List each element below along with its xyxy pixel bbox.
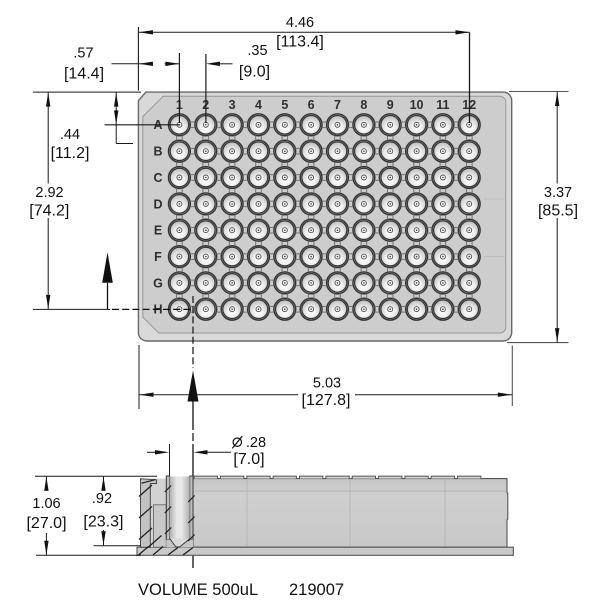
connector E6-E7 bbox=[322, 227, 327, 233]
connector C5-C6 bbox=[295, 175, 300, 181]
connector B5-C5 bbox=[282, 162, 288, 167]
svg-text:[127.8]: [127.8] bbox=[302, 392, 351, 409]
extension line row H bbox=[33, 308, 110, 310]
well A9 bbox=[379, 114, 401, 136]
well B12 bbox=[458, 140, 480, 162]
svg-text:3: 3 bbox=[229, 98, 236, 112]
connector C7-D7 bbox=[335, 188, 341, 193]
well E3 bbox=[221, 219, 243, 241]
hatch stroke 6 bbox=[165, 486, 171, 493]
well F1 bbox=[169, 246, 191, 268]
connector C10-C11 bbox=[427, 175, 432, 181]
connector D3-E3 bbox=[229, 215, 235, 220]
well E12 bbox=[458, 219, 480, 241]
connector D1-E1 bbox=[177, 215, 183, 220]
well rim tab 9 bbox=[405, 476, 428, 479]
connector C2-C3 bbox=[216, 175, 221, 181]
connector B1-C1 bbox=[177, 162, 183, 167]
section arrow left head bbox=[102, 252, 113, 282]
connector B2-C2 bbox=[203, 162, 209, 167]
connector H11-H12 bbox=[454, 306, 459, 312]
dimension .57 left arrow bbox=[139, 62, 153, 66]
svg-text:[74.2]: [74.2] bbox=[29, 203, 69, 220]
svg-text:C: C bbox=[153, 171, 162, 185]
well B11 bbox=[432, 140, 454, 162]
well F6 bbox=[300, 246, 322, 268]
well H3 bbox=[221, 298, 243, 320]
connector F3-F4 bbox=[243, 254, 248, 260]
connector G1-G2 bbox=[190, 280, 195, 286]
connector C8-D8 bbox=[361, 188, 367, 193]
well D10 bbox=[406, 193, 428, 215]
well G4 bbox=[248, 272, 270, 294]
well D9 bbox=[379, 193, 401, 215]
well E8 bbox=[353, 219, 375, 241]
well E5 bbox=[274, 219, 296, 241]
well D2 bbox=[195, 193, 217, 215]
hatch stroke 1 bbox=[139, 485, 152, 497]
connector A4-B4 bbox=[256, 135, 262, 140]
connector F9-G9 bbox=[387, 267, 393, 272]
well A2 bbox=[195, 114, 217, 136]
dimension 4.46 line bbox=[138, 31, 469, 33]
connector F3-G3 bbox=[229, 267, 235, 272]
svg-text:[14.4]: [14.4] bbox=[64, 66, 104, 83]
connector A11-A12 bbox=[454, 122, 459, 128]
connector C9-C10 bbox=[401, 175, 406, 181]
connector D3-D4 bbox=[243, 201, 248, 207]
connector E12-F12 bbox=[466, 241, 472, 246]
well A10 bbox=[406, 114, 428, 136]
connector B7-B8 bbox=[348, 148, 353, 154]
well C10 bbox=[406, 167, 428, 189]
svg-text:.28: .28 bbox=[246, 435, 266, 451]
well C9 bbox=[379, 167, 401, 189]
connector F10-G10 bbox=[414, 267, 420, 272]
connector A9-B9 bbox=[387, 135, 393, 140]
hatch stroke 10 bbox=[188, 517, 194, 524]
well H10 bbox=[406, 298, 428, 320]
well A3 bbox=[221, 114, 243, 136]
connector F7-G7 bbox=[335, 267, 341, 272]
svg-text:[27.0]: [27.0] bbox=[26, 515, 66, 532]
svg-text:3.37: 3.37 bbox=[544, 185, 572, 201]
svg-text:VOLUME 500uL: VOLUME 500uL bbox=[138, 581, 258, 599]
dimension .92 line lower bbox=[103, 530, 105, 546]
connector A12-B12 bbox=[466, 135, 472, 140]
connector E5-F5 bbox=[282, 241, 288, 246]
plate top view outline bbox=[138, 92, 511, 341]
dimension 1.06 line lower bbox=[45, 533, 47, 555]
connector E2-F2 bbox=[203, 241, 209, 246]
well G3 bbox=[221, 272, 243, 294]
extension line bottom left bbox=[138, 345, 140, 409]
svg-text:G: G bbox=[153, 276, 163, 290]
connector G10-H10 bbox=[414, 294, 420, 299]
connector B10-B11 bbox=[427, 148, 432, 154]
svg-text:4.46: 4.46 bbox=[286, 15, 314, 31]
connector G3-H3 bbox=[229, 294, 235, 299]
connector F2-G2 bbox=[203, 267, 209, 272]
svg-text:9: 9 bbox=[387, 98, 394, 112]
svg-text:4: 4 bbox=[255, 98, 262, 112]
connector B1-B2 bbox=[190, 148, 195, 154]
mold line right margin 2 bbox=[484, 256, 506, 258]
connector F8-F9 bbox=[375, 254, 380, 260]
dimension 5.03 right arrow bbox=[498, 393, 512, 397]
svg-text:[7.0]: [7.0] bbox=[233, 451, 264, 468]
centerline well column 2 bbox=[205, 54, 207, 123]
connector D10-E10 bbox=[414, 215, 420, 220]
well B8 bbox=[353, 140, 375, 162]
connector G3-G4 bbox=[243, 280, 248, 286]
well E6 bbox=[300, 219, 322, 241]
dimension 2.92 down arrow bbox=[46, 295, 50, 309]
well rim tab 2 bbox=[220, 476, 243, 479]
connector A2-B2 bbox=[203, 135, 209, 140]
svg-text:E: E bbox=[154, 224, 162, 238]
connector D6-E6 bbox=[308, 215, 314, 220]
connector A5-B5 bbox=[282, 135, 288, 140]
hatch stroke 4 bbox=[142, 480, 156, 484]
connector E7-E8 bbox=[348, 227, 353, 233]
extension line plate top edge left bbox=[33, 91, 141, 93]
well rim tab 4 bbox=[273, 476, 296, 479]
section arrow left shaft bbox=[107, 283, 109, 309]
dimension .92 down arrow bbox=[101, 531, 105, 545]
svg-text:1.06: 1.06 bbox=[32, 496, 60, 512]
connector C7-C8 bbox=[348, 175, 353, 181]
connector G4-G5 bbox=[269, 280, 274, 286]
extension line well wall left bbox=[169, 444, 171, 476]
hatch stroke 9 bbox=[188, 496, 194, 503]
extension line plate bottom right bbox=[507, 342, 569, 344]
connector D1-D2 bbox=[190, 201, 195, 207]
connector F12-G12 bbox=[466, 267, 472, 272]
connector G8-H8 bbox=[361, 294, 367, 299]
well F3 bbox=[221, 246, 243, 268]
diameter symbol bbox=[232, 436, 242, 448]
well F11 bbox=[432, 246, 454, 268]
well C3 bbox=[221, 167, 243, 189]
svg-text:.44: .44 bbox=[60, 127, 80, 143]
well cavity bbox=[170, 477, 190, 539]
dimension 3.37 line upper bbox=[556, 92, 558, 184]
svg-text:219007: 219007 bbox=[289, 581, 344, 599]
well tube cut right wall bbox=[190, 476, 193, 540]
well A6 bbox=[300, 114, 322, 136]
connector C11-D11 bbox=[440, 188, 446, 193]
well E2 bbox=[195, 219, 217, 241]
section cut centerline dashed upper bbox=[192, 296, 194, 368]
connector E9-F9 bbox=[387, 241, 393, 246]
dimension .44 line bbox=[115, 92, 117, 143]
well tube cut left wall bbox=[166, 476, 169, 540]
connector G9-G10 bbox=[401, 280, 406, 286]
well C6 bbox=[300, 167, 322, 189]
section arrow main head bbox=[188, 371, 199, 402]
well G6 bbox=[300, 272, 322, 294]
connector E4-F4 bbox=[256, 241, 262, 246]
dimension 1.06 down arrow bbox=[44, 541, 48, 555]
well B3 bbox=[221, 140, 243, 162]
connector A10-B10 bbox=[414, 135, 420, 140]
connector F6-G6 bbox=[308, 267, 314, 272]
connector B10-C10 bbox=[414, 162, 420, 167]
connector G5-H5 bbox=[282, 294, 288, 299]
hatch stroke 5 bbox=[149, 536, 162, 548]
connector H6-H7 bbox=[322, 306, 327, 312]
connector D9-D10 bbox=[401, 201, 406, 207]
connector H8-H9 bbox=[375, 306, 380, 312]
connector A7-B7 bbox=[335, 135, 341, 140]
dimension 4.46 left arrow bbox=[139, 30, 153, 34]
svg-text:.57: .57 bbox=[73, 46, 93, 62]
well C12 bbox=[458, 167, 480, 189]
well H7 bbox=[327, 298, 349, 320]
well C1 bbox=[169, 167, 191, 189]
well A12 bbox=[458, 114, 480, 136]
dimension .44 down arrow bbox=[114, 110, 118, 124]
dimension dia .28 tail bbox=[207, 451, 232, 453]
connector E11-F11 bbox=[440, 241, 446, 246]
connector D5-E5 bbox=[282, 215, 288, 220]
connector F2-F3 bbox=[216, 254, 221, 260]
connector G9-H9 bbox=[387, 294, 393, 299]
dimension 5.03 line left bbox=[139, 394, 298, 396]
svg-text:6: 6 bbox=[308, 98, 315, 112]
plate raised deck bbox=[143, 96, 506, 333]
connector D7-E7 bbox=[335, 215, 341, 220]
connector A10-A11 bbox=[427, 122, 432, 128]
connector B4-C4 bbox=[256, 162, 262, 167]
connector E7-F7 bbox=[335, 241, 341, 246]
cut inner rib bbox=[154, 505, 167, 547]
svg-text:.92: .92 bbox=[92, 491, 112, 507]
well G2 bbox=[195, 272, 217, 294]
connector C6-D6 bbox=[308, 188, 314, 193]
well F9 bbox=[379, 246, 401, 268]
well rim tab 7 bbox=[352, 476, 375, 479]
well rim tab 3 bbox=[247, 476, 270, 479]
connector A8-A9 bbox=[375, 122, 380, 128]
hatch stroke 14 bbox=[168, 548, 178, 556]
mold line right margin 1 bbox=[484, 198, 506, 200]
svg-text:[9.0]: [9.0] bbox=[239, 64, 270, 81]
well B10 bbox=[406, 140, 428, 162]
connector C8-C9 bbox=[375, 175, 380, 181]
dimension .35 tail bbox=[219, 63, 233, 65]
well A1 bbox=[169, 114, 191, 136]
connector B3-C3 bbox=[229, 162, 235, 167]
well D11 bbox=[432, 193, 454, 215]
well B7 bbox=[327, 140, 349, 162]
connector B8-B9 bbox=[375, 148, 380, 154]
connector B6-C6 bbox=[308, 162, 314, 167]
hatch stroke 11 bbox=[188, 535, 194, 542]
svg-text:.35: .35 bbox=[247, 43, 267, 59]
dimension .44 up arrow bbox=[114, 93, 118, 107]
well D6 bbox=[300, 193, 322, 215]
connector D8-D9 bbox=[375, 201, 380, 207]
well G10 bbox=[406, 272, 428, 294]
svg-text:[85.5]: [85.5] bbox=[538, 203, 578, 220]
connector F7-F8 bbox=[348, 254, 353, 260]
connector F11-F12 bbox=[454, 254, 459, 260]
connector D4-D5 bbox=[269, 201, 274, 207]
connector A1-B1 bbox=[177, 135, 183, 140]
connector B2-B3 bbox=[216, 148, 221, 154]
svg-text:B: B bbox=[153, 145, 162, 159]
connector E2-E3 bbox=[216, 227, 221, 233]
well E1 bbox=[169, 219, 191, 241]
hatch stroke 12 bbox=[139, 547, 149, 556]
well F5 bbox=[274, 246, 296, 268]
connector A9-A10 bbox=[401, 122, 406, 128]
well B1 bbox=[169, 140, 191, 162]
dimension 5.03 line right bbox=[355, 394, 512, 396]
connector G6-G7 bbox=[322, 280, 327, 286]
connector C4-C5 bbox=[269, 175, 274, 181]
connector E6-F6 bbox=[308, 241, 314, 246]
connector F6-F7 bbox=[322, 254, 327, 260]
connector G7-G8 bbox=[348, 280, 353, 286]
svg-text:[113.4]: [113.4] bbox=[276, 34, 324, 51]
body seam 2 bbox=[349, 480, 351, 547]
connector G11-H11 bbox=[440, 294, 446, 299]
well F7 bbox=[327, 246, 349, 268]
dimension 2.92 line lower bbox=[47, 218, 49, 309]
well H6 bbox=[300, 298, 322, 320]
well G1 bbox=[169, 272, 191, 294]
connector A6-A7 bbox=[322, 122, 327, 128]
connector A7-A8 bbox=[348, 122, 353, 128]
connector E10-E11 bbox=[427, 227, 432, 233]
body seam 3 bbox=[444, 480, 446, 547]
connector D11-E11 bbox=[440, 215, 446, 220]
hatch stroke 2 bbox=[139, 507, 152, 519]
connector H5-H6 bbox=[295, 306, 300, 312]
connector B4-B5 bbox=[269, 148, 274, 154]
well rim tab 6 bbox=[326, 476, 349, 479]
connector D7-D8 bbox=[348, 201, 353, 207]
extension line bottom right bbox=[511, 346, 513, 407]
connector F10-F11 bbox=[427, 254, 432, 260]
dimension 1.06 up arrow bbox=[44, 477, 48, 491]
connector E4-E5 bbox=[269, 227, 274, 233]
connector E1-F1 bbox=[177, 241, 183, 246]
section cut centerline solid bbox=[192, 444, 194, 568]
connector E5-E6 bbox=[295, 227, 300, 233]
connector A4-A5 bbox=[269, 122, 274, 128]
well B9 bbox=[379, 140, 401, 162]
well D4 bbox=[248, 193, 270, 215]
connector C1-C2 bbox=[190, 175, 195, 181]
well B2 bbox=[195, 140, 217, 162]
well C2 bbox=[195, 167, 217, 189]
hatch stroke 8 bbox=[165, 528, 171, 535]
connector E10-F10 bbox=[414, 241, 420, 246]
well C8 bbox=[353, 167, 375, 189]
connector C3-C4 bbox=[243, 175, 248, 181]
well C4 bbox=[248, 167, 270, 189]
well rim tab 8 bbox=[379, 476, 402, 479]
connector E9-E10 bbox=[401, 227, 406, 233]
connector E11-E12 bbox=[454, 227, 459, 233]
dimension .92 up arrow bbox=[101, 477, 105, 491]
connector A6-B6 bbox=[308, 135, 314, 140]
connector A5-A6 bbox=[295, 122, 300, 128]
well H1 bbox=[169, 298, 191, 320]
connector B12-C12 bbox=[466, 162, 472, 167]
centerline well column 1 bbox=[178, 53, 180, 123]
svg-text:F: F bbox=[154, 250, 162, 264]
connector G11-G12 bbox=[454, 280, 459, 286]
extension line section bottom bbox=[36, 554, 141, 556]
connector F9-F10 bbox=[401, 254, 406, 260]
connector C10-D10 bbox=[414, 188, 420, 193]
connector B8-C8 bbox=[361, 162, 367, 167]
extension line well depth bottom bbox=[94, 545, 142, 547]
svg-text:8: 8 bbox=[360, 98, 367, 112]
well G11 bbox=[432, 272, 454, 294]
connector H9-H10 bbox=[401, 306, 406, 312]
well conical bottom bbox=[166, 540, 193, 548]
well D1 bbox=[169, 193, 191, 215]
connector F1-G1 bbox=[177, 267, 183, 272]
connector D4-E4 bbox=[256, 215, 262, 220]
well F8 bbox=[353, 246, 375, 268]
extension line section top bbox=[35, 475, 157, 477]
connector C2-D2 bbox=[203, 188, 209, 193]
well G8 bbox=[353, 272, 375, 294]
connector C11-C12 bbox=[454, 175, 459, 181]
connector F5-G5 bbox=[282, 267, 288, 272]
deck inner line bbox=[195, 490, 506, 492]
connector A1-A2 bbox=[190, 122, 195, 128]
connector H10-H11 bbox=[427, 306, 432, 312]
well A5 bbox=[274, 114, 296, 136]
section cut centerline lower bbox=[192, 433, 194, 441]
hatch stroke 13 bbox=[153, 547, 163, 556]
well A8 bbox=[353, 114, 375, 136]
dimension .57 line bbox=[138, 63, 152, 65]
connector F4-G4 bbox=[256, 267, 262, 272]
dimension 4.46 right arrow bbox=[456, 30, 470, 34]
connector B11-C11 bbox=[440, 162, 446, 167]
connector G12-H12 bbox=[466, 294, 472, 299]
connector A3-A4 bbox=[243, 122, 248, 128]
svg-text:5.03: 5.03 bbox=[313, 376, 341, 392]
well H11 bbox=[432, 298, 454, 320]
connector H2-H3 bbox=[216, 306, 221, 312]
section arrow main shaft bbox=[192, 401, 194, 430]
well G9 bbox=[379, 272, 401, 294]
connector G1-H1 bbox=[177, 294, 183, 299]
connector G6-H6 bbox=[308, 294, 314, 299]
connector G2-G3 bbox=[216, 280, 221, 286]
connector C5-D5 bbox=[282, 188, 288, 193]
well B4 bbox=[248, 140, 270, 162]
connector G7-H7 bbox=[335, 294, 341, 299]
connector C6-C7 bbox=[322, 175, 327, 181]
dimension .92 line upper bbox=[103, 476, 105, 489]
connector D12-E12 bbox=[466, 215, 472, 220]
connector C3-D3 bbox=[229, 188, 235, 193]
dimension 3.37 up arrow bbox=[555, 92, 559, 106]
well G7 bbox=[327, 272, 349, 294]
svg-text:10: 10 bbox=[410, 98, 424, 112]
